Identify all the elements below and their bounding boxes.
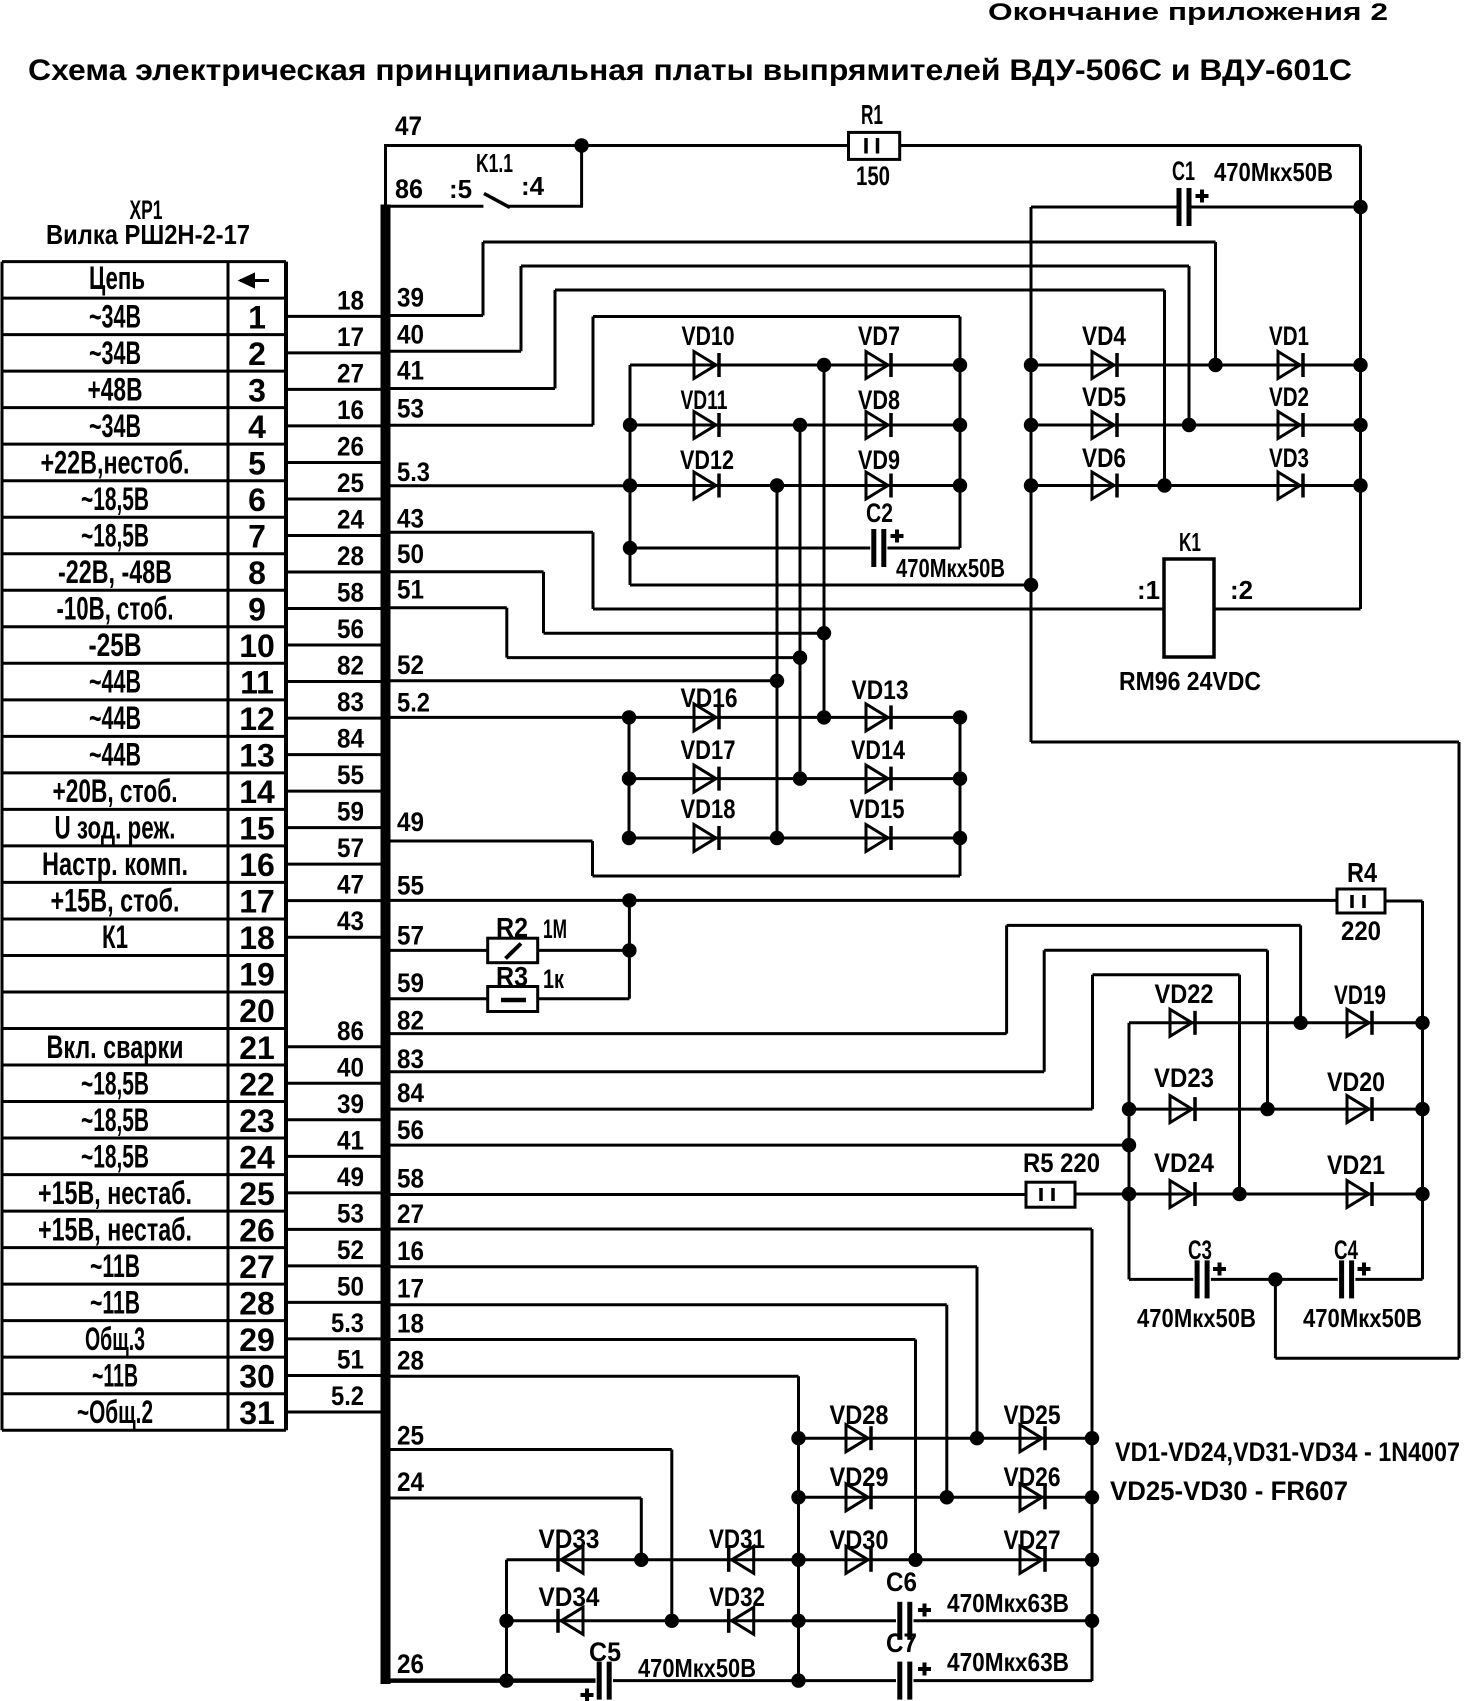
svg-text:30: 30 (239, 1358, 275, 1394)
svg-text:470Мкх50В: 470Мкх50В (638, 1653, 756, 1683)
wire pin17 to bus (label 47) (286, 899, 382, 902)
svg-text:VD26: VD26 (1004, 1462, 1061, 1492)
svg-text:~11В: ~11В (90, 1284, 140, 1320)
diode VD6 (1092, 472, 1114, 499)
svg-text:17: 17 (397, 1274, 424, 1304)
svg-text:VD11: VD11 (681, 385, 728, 415)
svg-text:~44В: ~44В (89, 737, 141, 773)
diode VD22 (1170, 1009, 1192, 1036)
vertical x1031 (C1 to relay bottom wire) (1030, 207, 1033, 742)
svg-text:41: 41 (337, 1125, 364, 1155)
svg-text:VD5: VD5 (1082, 382, 1126, 412)
svg-text:59: 59 (337, 797, 364, 827)
diode VD25 (1020, 1425, 1042, 1452)
svg-text:1М: 1М (543, 914, 567, 944)
svg-text:84: 84 (337, 724, 364, 754)
svg-text:58: 58 (337, 578, 364, 608)
VD33/VD31/VD30/VD27 row (507, 1558, 1093, 1561)
svg-text:24: 24 (337, 504, 364, 534)
diode VD17 (694, 765, 716, 792)
VD10 row (630, 364, 960, 367)
cross vertical x824 (VD10 row to VD16 row) (823, 365, 826, 717)
wire pin12 to bus (label 83) (286, 717, 382, 720)
svg-text:16: 16 (397, 1236, 424, 1266)
svg-text:6: 6 (248, 482, 266, 518)
relay K1 RM96 24VDC (1164, 559, 1214, 657)
svg-text:5.3: 5.3 (331, 1308, 364, 1338)
diode VD28 (846, 1425, 868, 1452)
junction on wire 47 (574, 138, 588, 152)
svg-text:~18,5В: ~18,5В (81, 481, 149, 517)
bus (thick harness line) (381, 205, 391, 1685)
svg-text:25: 25 (397, 1421, 424, 1451)
svg-text:VD31: VD31 (709, 1524, 765, 1554)
svg-text:40: 40 (337, 1052, 364, 1082)
svg-text::1: :1 (1137, 575, 1160, 605)
svg-text:R1: R1 (861, 99, 883, 130)
svg-text:20: 20 (239, 993, 275, 1029)
svg-text:12: 12 (239, 701, 275, 737)
svg-text:52: 52 (397, 650, 424, 680)
diode VD2 (1278, 412, 1300, 439)
svg-text:41: 41 (397, 356, 424, 386)
svg-text:27: 27 (397, 1199, 424, 1229)
svg-text:26: 26 (397, 1649, 424, 1679)
capacitor C3 470Мкх50В (1195, 1260, 1200, 1298)
wire pin31 to bus (label 5.2) (286, 1410, 382, 1413)
svg-text:56: 56 (397, 1115, 424, 1145)
svg-text:VD2: VD2 (1269, 382, 1309, 412)
left vertical x629 of VD16 block (628, 717, 631, 838)
VD4 row (1031, 364, 1361, 367)
resistor R5 220 (1026, 1182, 1075, 1207)
svg-text:24: 24 (239, 1139, 275, 1175)
diode VD4 (1092, 352, 1114, 379)
diode VD15 (866, 825, 888, 852)
wire pin24 to bus (label 41) (286, 1155, 382, 1158)
connector table XP1 frame (2, 260, 286, 263)
svg-text:4: 4 (248, 409, 266, 445)
right vertical (wire 47/C1 down to relay row) (1359, 146, 1362, 610)
wire pin22 to bus (label 40) (286, 1082, 382, 1085)
wire pin25 to bus (label 49) (286, 1191, 382, 1194)
diode VD33 (556, 1548, 560, 1572)
svg-text:5.3: 5.3 (397, 457, 430, 487)
svg-text::4: :4 (521, 171, 545, 201)
VD28/VD25 row (799, 1437, 1093, 1440)
table header arrow (240, 279, 269, 282)
svg-text:1к: 1к (543, 964, 564, 994)
svg-text:19: 19 (239, 957, 275, 993)
svg-text:50: 50 (337, 1271, 364, 1301)
svg-text:Общ.3: Общ.3 (85, 1321, 145, 1357)
wire pin9 to bus (label 58) (286, 607, 382, 610)
svg-text:R4: R4 (1347, 857, 1377, 888)
svg-text:28: 28 (337, 541, 364, 571)
svg-text:49: 49 (397, 807, 424, 837)
svg-text:25: 25 (337, 468, 364, 498)
wire pin27 to bus (label 52) (286, 1264, 382, 1267)
svg-text:VD3: VD3 (1269, 443, 1309, 473)
diode VD27 (1020, 1546, 1042, 1573)
diode VD9 (866, 472, 888, 499)
VD29/VD26 row (799, 1496, 1093, 1499)
svg-text:VD4: VD4 (1082, 321, 1126, 351)
svg-text:Окончание приложения 2: Окончание приложения 2 (988, 0, 1388, 26)
diode VD20 (1347, 1096, 1369, 1123)
svg-text:-25В: -25В (89, 627, 142, 663)
svg-text:VD12: VD12 (680, 445, 734, 475)
svg-text:9: 9 (248, 592, 266, 628)
diode VD18 (694, 825, 716, 852)
diode VD29 (846, 1484, 868, 1511)
svg-text:10: 10 (239, 628, 275, 664)
svg-text:470Мкх50В: 470Мкх50В (1214, 157, 1333, 187)
svg-text:+22В,нестоб.: +22В,нестоб. (41, 444, 190, 480)
svg-text:470Мкх63В: 470Мкх63В (947, 1647, 1069, 1677)
diode VD12 (694, 472, 716, 499)
svg-text:58: 58 (397, 1164, 424, 1194)
svg-text:VD15: VD15 (850, 794, 905, 824)
VD23/VD20 row (1129, 1108, 1423, 1111)
svg-text:VD24: VD24 (1154, 1148, 1214, 1178)
VD11 row (630, 424, 960, 427)
svg-text:23: 23 (239, 1103, 275, 1139)
bottom rail of VD10 block to x1031 (630, 584, 1031, 587)
VD6 row (1031, 484, 1361, 487)
diode VD7 (866, 352, 888, 379)
diode VD11 (694, 412, 716, 439)
wire pin11 to bus (label 82) (286, 680, 382, 683)
svg-text:16: 16 (337, 395, 364, 425)
svg-text:C2: C2 (866, 498, 893, 528)
vertical joining R2/R3 right to wire 55 (628, 900, 631, 998)
capacitor C5 470Мкх50В (597, 1662, 602, 1700)
svg-text:40: 40 (397, 319, 424, 349)
right vertical x960 of VD10/VD7 block (959, 317, 962, 549)
VD12 row (630, 484, 960, 487)
capacitor C1 470мкх50В (1177, 188, 1182, 226)
diode VD32 (727, 1609, 731, 1633)
diode VD24 (1170, 1181, 1192, 1208)
svg-text:2: 2 (248, 336, 266, 372)
svg-text:~Общ.2: ~Общ.2 (77, 1394, 153, 1430)
svg-text:VD23: VD23 (1154, 1063, 1214, 1093)
svg-text:VD20: VD20 (1327, 1067, 1385, 1097)
wire pin18 to bus (label 43) (286, 936, 382, 939)
capacitor C7 470Мкх63В (897, 1662, 902, 1700)
svg-text:59: 59 (397, 968, 424, 998)
wire relay bottom: x1031 down-right to far right vertical (1031, 741, 1459, 744)
wire R4 right to right vertical (1385, 900, 1423, 903)
wire from switch to junction on wire 47 (508, 205, 583, 208)
wire pin29 to bus (label 5.3) (286, 1337, 382, 1340)
svg-text:R5 220: R5 220 (1023, 1148, 1100, 1178)
svg-text:43: 43 (337, 906, 364, 936)
svg-text:VD25-VD30 - FR607: VD25-VD30 - FR607 (1110, 1476, 1348, 1506)
capacitor C6 470Мкх63В (897, 1602, 902, 1640)
resistor R4 220 (1337, 889, 1385, 913)
svg-text:+15В, нестаб.: +15В, нестаб. (38, 1175, 192, 1211)
svg-text:29: 29 (239, 1322, 275, 1358)
diode VD3 (1278, 472, 1300, 499)
svg-text:C6: C6 (886, 1567, 917, 1597)
svg-text:86: 86 (337, 1016, 364, 1046)
svg-text:C1: C1 (1172, 156, 1195, 186)
svg-text:5: 5 (248, 445, 266, 481)
wire pin26 to bus (label 53) (286, 1228, 382, 1231)
diode VD34 (556, 1609, 560, 1633)
diode VD8 (866, 412, 888, 439)
wire 47 horizontal (bus top to R1 and C1 corner) (384, 144, 849, 147)
right vertical x960 (VD13 row to bottom rail) (959, 717, 962, 876)
svg-text:VD28: VD28 (830, 1400, 889, 1430)
svg-text:+20В, стоб.: +20В, стоб. (53, 773, 178, 809)
wire pin5 to bus (label 26) (286, 461, 382, 464)
svg-text:R2: R2 (496, 912, 528, 943)
svg-text:470Мкх63В: 470Мкх63В (947, 1588, 1069, 1618)
svg-text:39: 39 (337, 1089, 364, 1119)
capacitor C4 470Мкх50В (1339, 1260, 1344, 1298)
svg-text:14: 14 (239, 774, 275, 810)
resistor R3 1к (488, 987, 538, 1012)
svg-text:22: 22 (239, 1066, 275, 1102)
svg-text:82: 82 (337, 651, 364, 681)
diode VD10 (694, 352, 716, 379)
svg-text:56: 56 (337, 614, 364, 644)
svg-text:+15В, стоб.: +15В, стоб. (51, 883, 180, 919)
svg-text:VD25: VD25 (1004, 1400, 1061, 1430)
svg-text:26: 26 (239, 1212, 275, 1248)
svg-text:-22В, -48В: -22В, -48В (58, 554, 172, 590)
wire pin13 to bus (label 84) (286, 753, 382, 756)
svg-text:13: 13 (239, 738, 275, 774)
switch blade K1.1 (open) (484, 194, 510, 208)
svg-text:51: 51 (397, 575, 424, 605)
diode VD14 (866, 765, 888, 792)
wire pin3 to bus (label 27) (286, 388, 382, 391)
svg-text:7: 7 (248, 518, 266, 554)
left vertical x506 (VD33 row to C5 row) (505, 1560, 508, 1681)
svg-text:~18,5В: ~18,5В (81, 1102, 149, 1138)
diode VD13 (866, 704, 888, 731)
svg-text:VD32: VD32 (709, 1582, 765, 1612)
diode VD26 (1020, 1484, 1042, 1511)
svg-text:VD6: VD6 (1082, 443, 1126, 473)
svg-text:18: 18 (397, 1309, 424, 1339)
svg-text:28: 28 (397, 1345, 424, 1375)
svg-text:84: 84 (397, 1078, 424, 1108)
svg-text:C5: C5 (589, 1637, 621, 1667)
svg-text:27: 27 (337, 358, 364, 388)
diode VD31 (727, 1548, 731, 1572)
svg-text:15: 15 (239, 811, 275, 847)
wire pin4 to bus (label 16) (286, 424, 382, 427)
resistor R2 1M (488, 938, 538, 963)
svg-text:220: 220 (1341, 916, 1381, 946)
wire pin14 to bus (label 55) (286, 790, 382, 793)
svg-text:~34В: ~34В (89, 335, 141, 371)
svg-text:27: 27 (239, 1249, 275, 1285)
svg-text:43: 43 (397, 503, 424, 533)
wire pin10 to bus (label 56) (286, 644, 382, 647)
right vertical x1422 (R4 to C4) (1421, 901, 1424, 1279)
svg-text:26: 26 (337, 431, 364, 461)
svg-text:~18,5В: ~18,5В (81, 1065, 149, 1101)
svg-text:~18,5В: ~18,5В (81, 1138, 149, 1174)
cross vertical x777 (VD12 row to VD18 row) (776, 486, 779, 839)
svg-text:~11В: ~11В (90, 1248, 140, 1284)
diode VD21 (1347, 1181, 1369, 1208)
svg-text:VD30: VD30 (830, 1525, 889, 1555)
wire pin21 to bus (label 86) (286, 1045, 382, 1048)
svg-text:VD1-VD24,VD31-VD34 - 1N4007: VD1-VD24,VD31-VD34 - 1N4007 (1115, 1437, 1460, 1467)
svg-text:17: 17 (239, 884, 275, 920)
svg-text:VD34: VD34 (539, 1582, 600, 1612)
svg-text:K1.1: K1.1 (476, 148, 513, 178)
svg-text:470Мкх50В: 470Мкх50В (896, 553, 1005, 583)
junction wire39/VD4 row (1208, 358, 1222, 372)
capacitor C2 470мкх50В (871, 529, 876, 567)
svg-text:51: 51 (337, 1344, 364, 1374)
svg-text:21: 21 (239, 1030, 275, 1066)
svg-text:5.2: 5.2 (331, 1381, 364, 1411)
wire C1 row from vertical x1031 to right vertical (1031, 206, 1177, 209)
svg-text:~11В: ~11В (92, 1357, 138, 1393)
svg-text:VD7: VD7 (858, 321, 900, 351)
svg-text:VD22: VD22 (1155, 979, 1214, 1009)
svg-text:18: 18 (337, 285, 364, 315)
diode VD5 (1092, 412, 1114, 439)
svg-text:86: 86 (395, 174, 423, 204)
svg-text:VD10: VD10 (682, 321, 735, 351)
resistor R1 (849, 132, 900, 159)
svg-text:83: 83 (337, 687, 364, 717)
svg-text:Схема электрическая принципиал: Схема электрическая принципиальная платы… (28, 54, 1352, 87)
diode VD16 (694, 704, 716, 731)
svg-text:8: 8 (248, 555, 266, 591)
diode VD19 (1347, 1009, 1369, 1036)
svg-text:470Мкх50В: 470Мкх50В (1303, 1303, 1422, 1333)
VD17/VD14 row (629, 777, 960, 780)
svg-text:28: 28 (239, 1285, 275, 1321)
svg-text:5.2: 5.2 (397, 687, 430, 717)
svg-text:50: 50 (397, 539, 424, 569)
svg-text:К1: К1 (102, 919, 128, 955)
VD24/VD21 row (R5 row) (1075, 1193, 1129, 1196)
svg-text:470Мкх50В: 470Мкх50В (1137, 1303, 1256, 1333)
svg-text:VD14: VD14 (851, 735, 905, 765)
vertical x630 (VD10 row to bottom rail) (629, 365, 632, 585)
wire pin23 to bus (label 39) (286, 1118, 382, 1121)
svg-text:C3: C3 (1188, 1235, 1212, 1265)
svg-text:18: 18 (239, 920, 275, 956)
svg-text:~34В: ~34В (89, 408, 141, 444)
svg-text:47: 47 (395, 111, 422, 141)
svg-text:25: 25 (239, 1176, 275, 1212)
svg-text:49: 49 (337, 1162, 364, 1192)
svg-text:VD21: VD21 (1327, 1150, 1385, 1180)
svg-text:VD17: VD17 (681, 735, 736, 765)
svg-text:VD8: VD8 (858, 385, 900, 415)
svg-text:VD13: VD13 (852, 675, 909, 705)
svg-text:16: 16 (239, 847, 275, 883)
svg-text:150: 150 (856, 161, 890, 191)
wire pin15 to bus (label 59) (286, 826, 382, 829)
wire pin8 to bus (label 28) (286, 571, 382, 574)
svg-text:53: 53 (397, 393, 424, 423)
junction dots bottom block verticals (791, 1431, 805, 1445)
svg-text:C4: C4 (1334, 1235, 1358, 1265)
svg-text:52: 52 (337, 1235, 364, 1265)
svg-text:83: 83 (397, 1044, 424, 1074)
svg-text:Вилка РШ2Н-2-17: Вилка РШ2Н-2-17 (46, 219, 250, 250)
VD5 row (1031, 424, 1361, 427)
svg-text:31: 31 (239, 1395, 275, 1431)
junction C1 right (1353, 200, 1367, 214)
svg-text:R3: R3 (496, 961, 528, 992)
svg-text:11: 11 (240, 665, 274, 701)
svg-text:VD1: VD1 (1269, 321, 1309, 351)
svg-text:47: 47 (337, 870, 364, 900)
VD18/VD15 row (629, 837, 960, 840)
svg-text:~34В: ~34В (89, 298, 141, 334)
svg-text:82: 82 (397, 1006, 424, 1036)
svg-text:55: 55 (397, 870, 424, 900)
svg-text:3: 3 (248, 372, 266, 408)
svg-text:VD19: VD19 (1334, 980, 1386, 1010)
svg-text:~44В: ~44В (89, 664, 141, 700)
svg-text:VD9: VD9 (858, 445, 900, 475)
svg-text:57: 57 (337, 833, 364, 863)
svg-text:17: 17 (337, 322, 364, 352)
svg-text:VD33: VD33 (539, 1524, 600, 1554)
wire 86 from bus to switch contact (390, 205, 483, 208)
wire: thin vertical from wire47 down to bus top (384, 146, 387, 207)
svg-text:+48В: +48В (88, 371, 143, 407)
wire pin30 to bus (label 51) (286, 1374, 382, 1377)
svg-text::5: :5 (449, 174, 472, 204)
wire relay pin2 to right vertical (1214, 608, 1361, 611)
wire pin6 to bus (label 25) (286, 497, 382, 500)
svg-text:55: 55 (337, 760, 364, 790)
svg-text:VD18: VD18 (681, 794, 736, 824)
diode VD30 (846, 1546, 868, 1573)
svg-text:C7: C7 (886, 1628, 917, 1658)
wire pin28 to bus (label 50) (286, 1301, 382, 1304)
diode VD23 (1170, 1096, 1192, 1123)
wire pin1 to bus (label 18) (286, 315, 382, 318)
cross vertical x800 (VD11 row to VD17 row) (799, 425, 802, 779)
svg-text:VD27: VD27 (1004, 1525, 1061, 1555)
wire pin2 to bus (label 17) (286, 351, 382, 354)
C3/C4 bottom rail (1129, 1278, 1193, 1281)
VD22/VD19 row (1129, 1021, 1423, 1024)
svg-text:U зод. реж.: U зод. реж. (55, 810, 176, 846)
svg-text:VD29: VD29 (830, 1462, 889, 1492)
diode VD1 (1278, 352, 1300, 379)
wire pin7 to bus (label 24) (286, 534, 382, 537)
VD34/VD32/C6 row (507, 1619, 897, 1622)
svg-text:~44В: ~44В (89, 700, 141, 736)
C2 row (630, 547, 870, 550)
svg-text:Цепь: Цепь (89, 260, 145, 296)
wire pin16 to bus (label 57) (286, 863, 382, 866)
svg-text:VD16: VD16 (681, 683, 738, 713)
svg-text:Вкл. сварки: Вкл. сварки (47, 1029, 184, 1065)
svg-text:+15В, нестаб.: +15В, нестаб. (38, 1211, 192, 1247)
svg-text:K1: K1 (1179, 527, 1201, 557)
